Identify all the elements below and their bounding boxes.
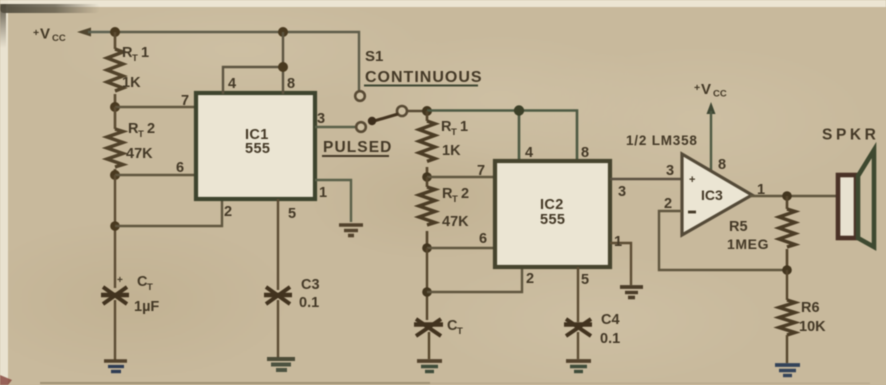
svg-text:PULSED: PULSED — [323, 139, 392, 156]
svg-text:8: 8 — [287, 76, 295, 92]
wire: IC3 pin 2 feedback loop — [659, 211, 787, 270]
wire: CT to ground — [114, 300, 116, 360]
wire: pin 7 of IC1 — [115, 106, 196, 108]
svg-text:T: T — [147, 282, 153, 293]
svg-text:2: 2 — [526, 271, 534, 287]
node junction R5/R6/feedback — [782, 265, 792, 275]
wire: C4 to ground — [577, 332, 579, 359]
node junction at IC1 pin8 drop — [278, 27, 288, 37]
svg-text:CONTINUOUS: CONTINUOUS — [365, 69, 483, 86]
svg-text:2: 2 — [224, 204, 232, 220]
svg-text:T: T — [132, 53, 138, 64]
wire: pin 2 bracket of IC1 — [115, 200, 222, 226]
svg-text:1: 1 — [614, 234, 622, 250]
label CT — [137, 274, 153, 293]
wire: VCC arrow up to IC3 pin 8 — [707, 102, 716, 172]
node junction at RT1 top — [110, 27, 120, 37]
svg-text:+: + — [689, 174, 695, 186]
svg-text:1: 1 — [460, 119, 468, 135]
svg-text:1MEG: 1MEG — [727, 236, 769, 252]
ground (IC2 pin 1) — [620, 287, 643, 298]
wire: R6 to ground — [786, 335, 788, 363]
svg-text:T: T — [452, 194, 458, 205]
wire: IC1 pin 5 drop — [277, 199, 279, 290]
capacitor C4 symbol — [564, 319, 592, 336]
svg-text:T: T — [138, 129, 144, 140]
wire: left vertical down to CT — [114, 175, 116, 288]
op-amp - input mark — [688, 211, 696, 214]
wire: IC2 pin 1 to ground — [610, 243, 631, 285]
resistor R5 leads — [786, 196, 789, 209]
wire: node to R6 — [786, 270, 788, 300]
node junction RT2/pin6 (IC2) — [422, 243, 432, 253]
svg-text:1K: 1K — [122, 75, 141, 91]
svg-text:1K: 1K — [442, 143, 461, 159]
svg-text:+: + — [33, 27, 39, 39]
svg-text:5: 5 — [581, 272, 589, 288]
resistor R_T2 (IC1) body — [107, 129, 123, 167]
speaker SPKR driver — [838, 175, 856, 238]
switch S1 contact PULSED — [356, 122, 366, 132]
svg-text:0.1: 0.1 — [299, 295, 319, 311]
resistor R_T1 (IC1) body — [107, 49, 123, 91]
node +VCC label (left) — [33, 26, 66, 45]
capacitor C3 symbol — [264, 287, 292, 304]
label RT2 (IC2) — [442, 186, 469, 205]
wire: IC1 pin4/pin8 top bracket — [223, 32, 283, 94]
svg-text:C3: C3 — [301, 277, 320, 293]
svg-text:+: + — [117, 275, 123, 286]
wire: pin 6 of IC2 — [427, 247, 495, 249]
switch S1 blade arm — [368, 114, 398, 125]
label CT (IC2) — [447, 318, 463, 337]
wire: vertical down to CT (IC2) — [426, 248, 428, 320]
svg-text:6: 6 — [479, 231, 487, 247]
wire: pole to junction — [407, 110, 424, 112]
svg-text:5: 5 — [288, 206, 296, 222]
op-amp IC1 box (555) — [196, 93, 315, 199]
svg-text:CC: CC — [52, 33, 66, 44]
resistor R_T1 (IC2) leads — [426, 111, 429, 121]
svg-text:47K: 47K — [442, 214, 469, 230]
svg-text:7: 7 — [181, 93, 189, 109]
wire: IC1 pin 1 to ground — [315, 180, 351, 222]
resistor R6 body — [779, 300, 795, 335]
node junction pin2 branch (IC2) — [422, 287, 432, 297]
svg-text:IC2: IC2 — [540, 197, 564, 213]
svg-text:8: 8 — [718, 157, 726, 173]
svg-text:1µF: 1µF — [134, 299, 159, 315]
switch S1 contact CONTINUOUS — [355, 91, 365, 101]
ground (below C3) — [267, 359, 295, 370]
svg-text:R6: R6 — [801, 300, 820, 316]
switch S1 pole — [397, 106, 407, 116]
resistor R_T1 (IC2) body — [419, 121, 435, 161]
svg-text:555: 555 — [540, 212, 565, 228]
svg-text:C4: C4 — [601, 312, 620, 328]
svg-text:1: 1 — [319, 185, 327, 201]
svg-text:8: 8 — [581, 145, 589, 161]
label CONTINUOUS (underlined) — [364, 69, 483, 86]
resistor R_T2 (IC2) leads — [426, 177, 429, 187]
svg-text:1/2 LM358: 1/2 LM358 — [626, 133, 698, 148]
node junction RT2/pin6 — [110, 170, 120, 180]
resistor R5 body — [779, 209, 795, 247]
node junction switch output rail — [422, 106, 432, 116]
wire: pin 2 bracket of IC2 — [427, 268, 522, 292]
svg-text:2: 2 — [664, 196, 672, 212]
label RT2 — [128, 121, 155, 140]
wire: rail to IC2 pins 4/8 — [427, 111, 577, 163]
label RT1 (IC2) — [441, 119, 468, 138]
page edge: left light strip — [0, 0, 8, 385]
svg-text:10K: 10K — [799, 319, 826, 335]
wire: IC3 output to speaker — [750, 195, 839, 197]
node junction at IC2 pin4 drop — [514, 105, 524, 115]
svg-text:2: 2 — [147, 121, 155, 137]
svg-text:SPKR: SPKR — [822, 127, 879, 144]
ground (below C4) — [566, 361, 591, 372]
node junction pin2 branch — [110, 221, 120, 231]
svg-text:T: T — [451, 127, 457, 138]
svg-text:1: 1 — [757, 182, 765, 198]
wire: pin 6 of IC1 — [115, 174, 196, 176]
wire: IC2 pin 5 drop — [577, 267, 579, 322]
svg-text:2: 2 — [461, 186, 469, 202]
svg-text:R5: R5 — [729, 219, 748, 235]
op-amp IC3 triangle — [682, 154, 752, 235]
svg-text:V: V — [701, 81, 711, 98]
svg-text:4: 4 — [228, 76, 236, 92]
node +VCC label (op-amp) — [694, 81, 727, 100]
page edge: top light strip — [0, 0, 886, 7]
node junction RT1/RT2/pin7 — [110, 102, 120, 112]
ground (below R6) — [775, 365, 800, 376]
svg-text:CC: CC — [713, 89, 727, 100]
node junction RT1/RT2/pin7 (IC2) — [422, 172, 432, 182]
wire: VCC arrow (points left) — [77, 28, 116, 37]
resistor R_T2 (IC1) leads — [114, 107, 117, 129]
page edge: bottom-left red mark — [0, 375, 12, 385]
label RT1 — [122, 45, 149, 64]
resistor R_T1 (IC1) leads — [114, 32, 117, 49]
svg-text:4: 4 — [525, 145, 533, 161]
svg-text:555: 555 — [245, 141, 270, 157]
svg-text:0.1: 0.1 — [600, 331, 620, 347]
resistor R_T2 (IC2) body — [419, 187, 435, 225]
capacitor CT (IC1) symbol — [101, 287, 129, 304]
svg-text:+: + — [694, 82, 700, 94]
svg-text:V: V — [40, 26, 50, 43]
svg-text:6: 6 — [176, 160, 184, 176]
node junction pins 4-8 — [278, 62, 288, 72]
svg-text:IC3: IC3 — [701, 187, 723, 203]
capacitor CT (IC2) symbol — [414, 319, 443, 336]
ground (IC1 pin 1) — [339, 225, 363, 236]
svg-text:1: 1 — [141, 45, 149, 61]
wire: CT (IC2) to ground — [428, 332, 430, 359]
label PULSED (underlined) — [322, 139, 392, 156]
svg-text:7: 7 — [477, 163, 485, 179]
wire: IC1 pin 3 output — [315, 126, 356, 128]
svg-text:T: T — [457, 326, 463, 337]
wire: IC2 pin 3 to IC3 + input — [610, 178, 682, 180]
ground (below CT of IC2) — [417, 361, 442, 372]
svg-text:3: 3 — [618, 184, 626, 200]
page edge: bottom faint line — [40, 382, 430, 384]
node junction output/R5 — [782, 191, 792, 201]
ground (below CT) — [104, 361, 127, 372]
speaker SPKR cone — [858, 150, 874, 247]
op-amp IC2 box (555) — [495, 161, 610, 267]
svg-text:3: 3 — [317, 111, 325, 127]
wire: C3 to ground — [277, 300, 279, 358]
svg-text:3: 3 — [666, 163, 674, 179]
wire: pin 7 of IC2 — [427, 176, 495, 178]
svg-text:47K: 47K — [126, 146, 153, 162]
wire: top VCC rail — [116, 32, 359, 91]
svg-text:S1: S1 — [365, 48, 383, 65]
